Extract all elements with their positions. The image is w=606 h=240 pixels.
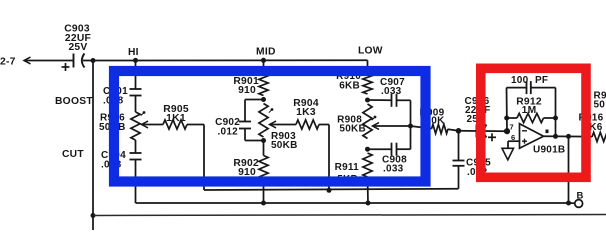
wire MID drop (263, 60, 265, 74)
node R908-R911 (365, 147, 370, 152)
wire LOW drop (367, 60, 369, 74)
node HI (133, 58, 138, 63)
svg-text:25V: 25V (68, 42, 87, 53)
node R903-R902 (261, 138, 266, 143)
op-amp minus mark (522, 130, 527, 132)
wire feedback right vertical (555, 88, 557, 137)
svg-text:1M: 1M (522, 105, 537, 116)
R906 wiper arrow (142, 121, 149, 128)
wire output down to B (568, 136, 570, 203)
blue highlight rectangle (114, 71, 426, 182)
svg-text:.012: .012 (218, 127, 239, 138)
wire left input rail (92, 61, 94, 216)
wire R902 down to return bus (263, 179, 265, 203)
node R909-C906-C905 (456, 128, 462, 134)
svg-text:50KB: 50KB (339, 124, 366, 135)
R908 wiper arrow (373, 123, 380, 130)
svg-text:2-7: 2-7 (0, 57, 16, 68)
C906 plus polarity mark (488, 136, 496, 138)
node output-B branch (566, 134, 571, 139)
node wiper junction (408, 124, 413, 129)
wire feedback bus (204, 189, 458, 190)
red highlight rectangle (481, 68, 586, 177)
node inverting input (504, 128, 510, 134)
svg-text:1K3: 1K3 (296, 107, 316, 118)
capacitor C907 bypass (368, 99, 392, 101)
potentiometer R908 50KB (363, 104, 372, 139)
wire to terminal B (569, 202, 575, 204)
svg-text:R911: R911 (335, 162, 360, 173)
wire R909 to node (448, 129, 459, 131)
svg-text:.033: .033 (383, 164, 404, 175)
capacitor C901 (130, 88, 142, 90)
node R912 right (553, 116, 558, 121)
wire HI drop (135, 60, 137, 89)
pin 8 output mark (546, 130, 549, 134)
node at C903 output (91, 58, 96, 63)
op-amp plus mark (522, 140, 527, 142)
wire R904 to feedback bus (319, 124, 329, 126)
svg-text:BOOST: BOOST (55, 96, 93, 107)
svg-text:LOW: LOW (358, 46, 383, 57)
svg-text:CUT: CUT (62, 149, 84, 160)
svg-text:U901B: U901B (533, 145, 565, 156)
R908 wiper asterisk (374, 116, 377, 119)
node output-feedback (553, 134, 558, 139)
op-amp U901B triangle (520, 124, 544, 149)
node R911 return (366, 201, 371, 206)
wire feedback left vertical (506, 88, 509, 132)
svg-text:100: 100 (511, 75, 529, 86)
potentiometer R903 50KB (259, 104, 268, 138)
svg-text:50KB: 50KB (271, 140, 298, 151)
node MID (261, 58, 266, 63)
node R901-R903 (261, 97, 266, 102)
svg-text:910: 910 (238, 85, 256, 96)
wire noninverting input step (508, 140, 520, 142)
svg-text:6KB: 6KB (339, 81, 360, 92)
resistor at right edge (592, 132, 606, 141)
resistor R911 5K6 (363, 153, 372, 177)
wire top signal bus (93, 59, 368, 61)
resistor R901 910 (259, 74, 268, 96)
capacitor C904 (130, 152, 142, 154)
R906 wiper asterisk (143, 111, 146, 114)
capacitor C905 to feedback bus (458, 131, 460, 161)
node R902 return (261, 201, 266, 206)
svg-text:HI: HI (128, 47, 139, 58)
svg-text:.033: .033 (381, 86, 402, 97)
C903 plus polarity mark (62, 66, 70, 68)
wire R911 down to return bus (367, 177, 370, 203)
svg-text:50: 50 (594, 100, 606, 111)
wire C904 down to return bus (135, 160, 137, 204)
node R912 left (504, 116, 509, 121)
wire bottom long rail (93, 215, 606, 216)
capacitor C902 bypass loop (245, 99, 264, 101)
node input rail to bottom wire (91, 213, 96, 218)
capacitor 100 PF feedback (507, 87, 527, 89)
wire op-amp output (544, 135, 593, 137)
resistor R912 1M (507, 117, 517, 119)
svg-text:MID: MID (256, 47, 276, 58)
terminal B circle (575, 200, 583, 208)
R903 wiper asterisk (271, 108, 274, 111)
wire rail stub below (92, 216, 94, 231)
R903 wiper arrow (270, 121, 277, 128)
capacitor C903 symbol (polarized) (61, 60, 74, 62)
svg-text:910: 910 (238, 167, 256, 178)
svg-text:PF: PF (535, 75, 548, 86)
node R910-R908 (365, 98, 370, 103)
svg-text:1K1: 1K1 (166, 113, 186, 124)
wire R905 to feedback bus (187, 124, 204, 126)
capacitor C908 bypass (368, 148, 392, 150)
resistor R909 10K (432, 124, 449, 133)
wire C901 to R906 (135, 96, 137, 113)
node R904 junction on feedback bus (327, 188, 332, 193)
capacitor C906 (polarized, under red box edge) (459, 130, 477, 132)
ground symbol (502, 148, 514, 160)
potentiometer R906 50KB (131, 112, 140, 140)
wire wiper junction to R909 (411, 126, 432, 129)
svg-text:B: B (577, 191, 584, 202)
node B junction (566, 201, 571, 206)
resistor R905 1K1 (163, 120, 187, 129)
wire R906 to C904 (135, 140, 137, 153)
wire C907-C908 junction vertical (410, 100, 412, 149)
svg-text:7: 7 (510, 123, 514, 132)
connector arrow to pin 2-7 (24, 57, 31, 64)
resistor R902 910 (263, 141, 265, 156)
resistor R910 6K8 (363, 74, 372, 94)
resistor R904 1K3 (296, 120, 319, 129)
